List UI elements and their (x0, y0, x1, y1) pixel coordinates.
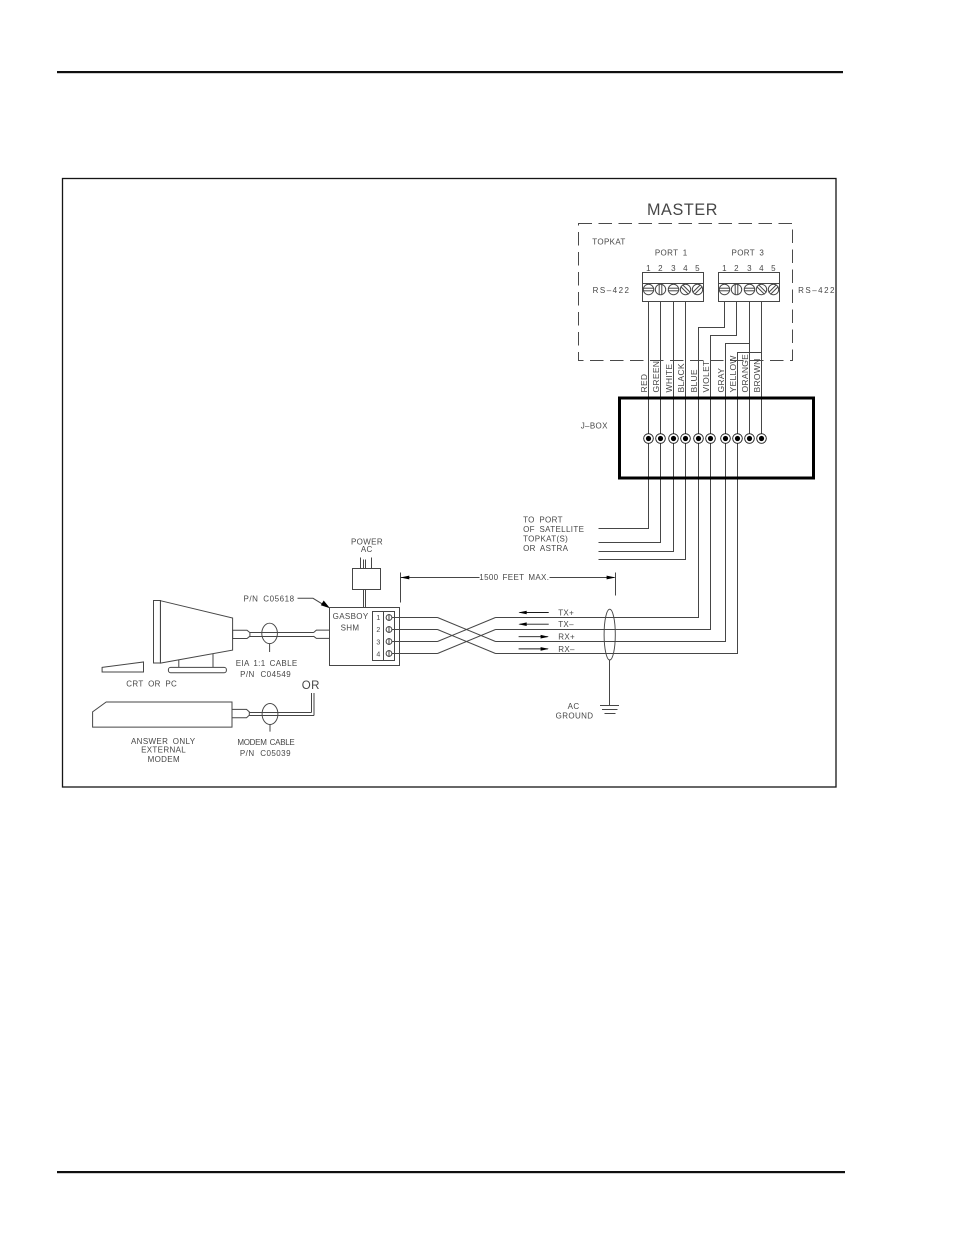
svg-text:4: 4 (759, 264, 764, 273)
svg-text:MODEM: MODEM (148, 755, 180, 764)
wire GRAY branch jog to RX+ row (496, 344, 750, 642)
svg-text:3: 3 (747, 264, 752, 273)
svg-text:BROWN: BROWN (752, 358, 762, 392)
svg-text:PORT 3: PORT 3 (732, 249, 765, 258)
wire YELLOW branch jog to RX- row (496, 353, 762, 654)
svg-text:BLUE: BLUE (689, 369, 699, 392)
svg-text:2: 2 (376, 627, 380, 634)
svg-text:TO PORT: TO PORT (523, 515, 563, 524)
svg-text:4: 4 (683, 264, 688, 273)
label J-BOX (581, 422, 608, 431)
label TOPKAT (592, 238, 625, 247)
terminal block TB1 PORT 1 (643, 273, 704, 302)
power cord to SHM (364, 590, 366, 608)
svg-text:RED: RED (639, 374, 649, 393)
TB1 screw 3 (668, 284, 679, 294)
svg-text:4: 4 (376, 651, 380, 658)
twisted pair crossover wires (438, 618, 496, 654)
wire label BLUE (689, 369, 699, 392)
keyboard (102, 662, 143, 672)
label PORT 1 (655, 249, 688, 258)
CRT monitor body (160, 601, 232, 663)
EIA cable ferrite ellipse (262, 623, 278, 643)
svg-text:CRT OR PC: CRT OR PC (126, 679, 177, 688)
wire label GREEN (651, 361, 661, 393)
label GASBOY SHM (333, 612, 369, 633)
PORT1 pin numbers 1-5 (646, 264, 700, 273)
svg-text:VIOLET: VIOLET (701, 360, 711, 392)
svg-text:GRAY: GRAY (716, 368, 726, 393)
label MASTER (647, 201, 718, 219)
wire label BROWN (752, 358, 762, 392)
top rule (57, 71, 843, 73)
svg-text:RS–422: RS–422 (593, 286, 631, 295)
svg-text:PORT 1: PORT 1 (655, 249, 688, 258)
dimension 1500 FEET MAX (400, 573, 615, 603)
wire label WHITE (664, 364, 674, 393)
diagram frame (63, 179, 837, 788)
ground symbol (600, 706, 619, 714)
terminal block TB2 PORT 3 (719, 273, 780, 302)
wire label YELLOW (728, 355, 738, 392)
modem connector (232, 709, 249, 717)
svg-text:1500 FEET MAX.: 1500 FEET MAX. (479, 573, 549, 582)
modem cable riser to OR (312, 693, 315, 716)
TB1 screw 5 (692, 284, 702, 294)
bottom rule (57, 1171, 845, 1173)
ground wire (609, 660, 611, 706)
svg-text:MASTER: MASTER (647, 201, 718, 219)
TB2 screw 3 (744, 284, 755, 294)
TX+ direction arrow and label (518, 609, 574, 618)
modem chassis (93, 702, 232, 727)
SHM terminal lead wires (392, 618, 438, 654)
wire ORANGE TB2-3 straight to J-BOX (749, 302, 751, 439)
label RS-422 right (798, 286, 836, 295)
svg-text:2: 2 (734, 264, 739, 273)
svg-text:AC: AC (361, 545, 373, 554)
svg-text:OR ASTRA: OR ASTRA (523, 544, 569, 553)
modem cable ferrite ellipse (262, 704, 278, 725)
label POWER AC (351, 538, 383, 554)
cable shield ellipse (604, 609, 615, 660)
svg-text:OF SATELLITE: OF SATELLITE (523, 525, 584, 534)
PORT3 pin numbers 1-5 (722, 264, 776, 273)
svg-text:GREEN: GREEN (651, 361, 661, 393)
TB2 screw 1 (719, 284, 730, 294)
svg-text:GASBOY: GASBOY (333, 612, 369, 621)
TX- direction arrow and label (518, 620, 574, 629)
svg-text:WHITE: WHITE (664, 364, 674, 393)
label EIA 1:1 CABLE P/N C04549 (236, 659, 298, 679)
EIA cable right connector (314, 630, 330, 638)
svg-text:TOPKAT(S): TOPKAT(S) (523, 534, 568, 543)
wire BROWN TB2-4 straight to J-BOX (761, 302, 763, 439)
svg-text:5: 5 (771, 264, 776, 273)
svg-text:TX+: TX+ (558, 609, 574, 618)
svg-text:BLACK: BLACK (676, 363, 686, 392)
RX- direction arrow and label (519, 645, 575, 654)
label RS-422 left (593, 286, 631, 295)
AC power plug (353, 558, 381, 590)
CRT monitor bezel (154, 601, 161, 664)
svg-text:YELLOW: YELLOW (728, 355, 738, 392)
wire BLACK TB1-4 to J-BOX to satellite stub (599, 302, 686, 560)
svg-text:RX–: RX– (558, 645, 575, 654)
label OR (302, 680, 320, 692)
modem ellipse stub (269, 725, 271, 732)
label PORT 3 (732, 249, 765, 258)
svg-text:TOPKAT: TOPKAT (592, 238, 625, 247)
svg-text:P/N C05039: P/N C05039 (240, 749, 291, 758)
GASBOY SHM box (330, 608, 400, 666)
label MODEM CABLE P/N C05039 (237, 738, 294, 758)
TB2 screw 4 (756, 284, 766, 294)
TB1 screw 2 (655, 284, 665, 295)
svg-text:MODEM CABLE: MODEM CABLE (237, 738, 294, 747)
wire label RED (639, 374, 649, 393)
svg-text:RS–422: RS–422 (798, 286, 836, 295)
svg-text:5: 5 (695, 264, 700, 273)
wire GREEN TB1-2 to J-BOX to satellite stub (599, 302, 661, 543)
label CRT OR PC (126, 679, 177, 688)
TB1 screw 1 (643, 284, 654, 294)
svg-text:GROUND: GROUND (556, 711, 594, 720)
TB1 screw 4 (680, 284, 690, 294)
label P/N C05618 with leader arrow (244, 595, 331, 609)
svg-text:AC: AC (568, 702, 580, 711)
svg-text:P/N C05618: P/N C05618 (244, 595, 295, 604)
svg-text:3: 3 (376, 639, 380, 646)
CRT video connector (233, 630, 250, 638)
EIA cable conductors (250, 633, 314, 637)
wire WHITE TB1-3 to J-BOX to satellite stub (599, 302, 674, 552)
wire label BLACK (676, 363, 686, 392)
label ANSWER ONLY EXTERNAL MODEM (131, 737, 196, 764)
SHM pin numbers 1-4 (376, 615, 380, 658)
J-BOX enclosure (620, 398, 814, 478)
SHM screw terminals (386, 614, 392, 657)
wire BLUE TB2-1 jog to TX+ row (496, 302, 725, 618)
modem cable conductors (249, 713, 314, 716)
svg-text:OR: OR (302, 680, 320, 692)
EIA ellipse stub (269, 644, 271, 652)
RX+ direction arrow and label (519, 633, 575, 642)
svg-text:EXTERNAL: EXTERNAL (141, 746, 186, 755)
TB2 screw 2 (731, 284, 741, 295)
wire VIOLET TB2-2 jog to TX- row (496, 302, 737, 630)
J-BOX terminal dots (644, 434, 767, 444)
svg-text:RX+: RX+ (558, 633, 575, 642)
svg-text:P/N C04549: P/N C04549 (240, 670, 291, 679)
svg-text:ORANGE: ORANGE (740, 354, 750, 393)
svg-text:SHM: SHM (341, 624, 360, 633)
svg-text:1: 1 (376, 615, 380, 622)
TOPKAT dashed box (579, 224, 793, 361)
SHM terminal strip (373, 612, 395, 661)
TB2 screw 5 (768, 284, 778, 294)
svg-text:1: 1 (722, 264, 727, 273)
svg-text:J–BOX: J–BOX (581, 422, 608, 431)
label AC GROUND (556, 702, 594, 720)
wire label VIOLET (701, 360, 711, 392)
svg-text:3: 3 (671, 264, 676, 273)
svg-text:2: 2 (658, 264, 663, 273)
svg-text:TX–: TX– (558, 620, 574, 629)
svg-text:EIA 1:1 CABLE: EIA 1:1 CABLE (236, 659, 298, 668)
svg-text:1: 1 (646, 264, 651, 273)
wire label ORANGE (740, 354, 750, 393)
wire RED TB1-1 to J-BOX to satellite stub (599, 302, 649, 529)
wire label GRAY (716, 368, 726, 393)
label TO PORT OF SATELLITE TOPKAT(S) OR ASTRA (523, 515, 584, 553)
CRT stand (168, 654, 226, 673)
